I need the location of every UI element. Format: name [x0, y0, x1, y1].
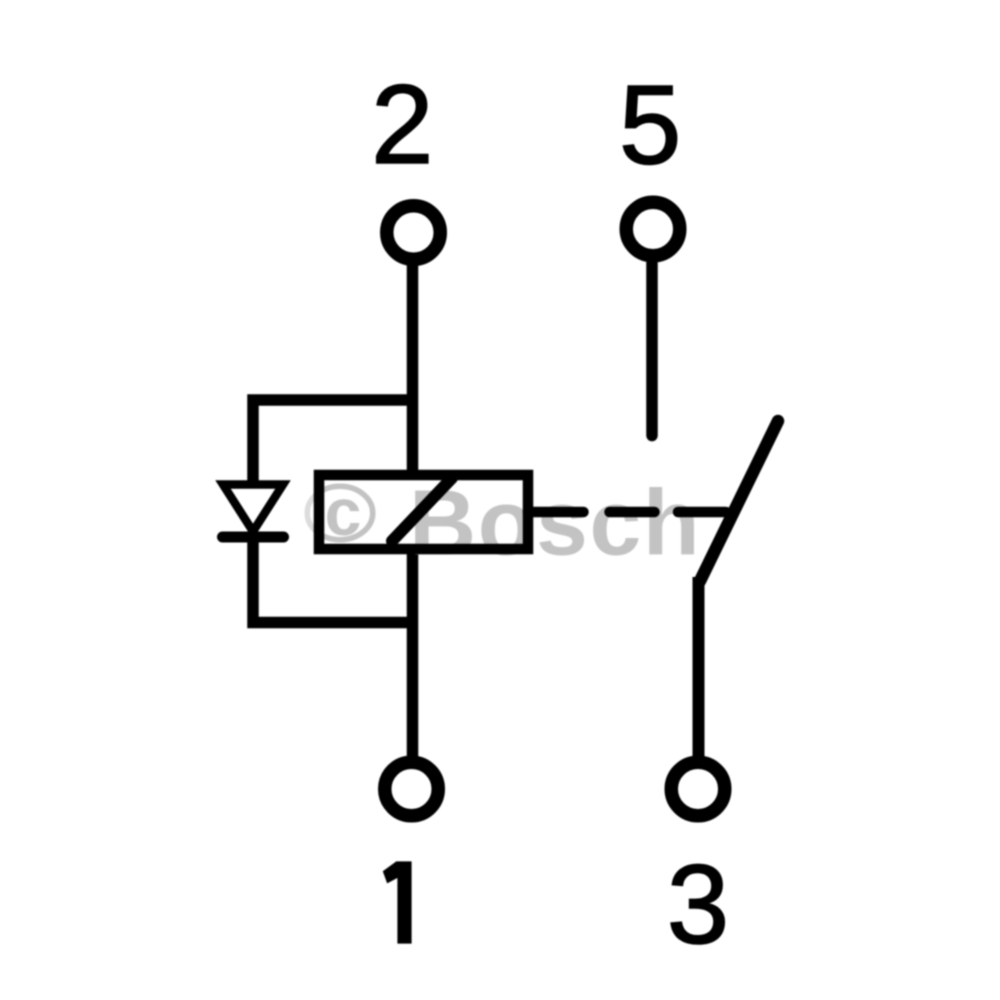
svg-text:Bosch: Bosch: [409, 471, 701, 575]
svg-text:c: c: [325, 475, 362, 549]
svg-text:2: 2: [371, 62, 433, 187]
svg-text:3: 3: [667, 842, 729, 967]
svg-text:5: 5: [619, 63, 681, 188]
